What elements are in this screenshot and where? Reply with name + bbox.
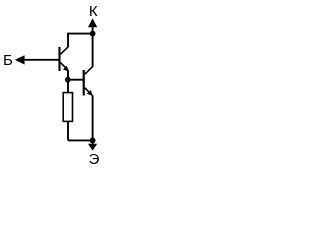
wire bottom horizontal bbox=[68, 139, 93, 141]
wire Q1 collector horizontal bbox=[68, 33, 93, 35]
transistor Q1 emitter arrowhead bbox=[63, 66, 69, 72]
transistor Q2 base bar bbox=[83, 70, 85, 96]
junction emitter node bbox=[90, 138, 96, 144]
transistor Q1 base bar bbox=[58, 47, 60, 71]
transistor Q2 emitter lead bbox=[85, 88, 90, 93]
junction Q2 base node bbox=[65, 77, 71, 83]
base terminal arrow bbox=[15, 55, 25, 64]
transistor Q2 collector lead bbox=[85, 66, 93, 74]
wire Q1 emitter to node bbox=[67, 71, 69, 94]
emitter terminal arrow bbox=[88, 144, 97, 151]
wire emitter vertical bbox=[92, 96, 94, 146]
wire resistor bottom vertical bbox=[67, 121, 69, 140]
wire Q1 collector vertical bbox=[67, 33, 69, 47]
resistor R1 bbox=[63, 93, 72, 122]
wire base horizontal bbox=[24, 59, 59, 61]
transistor Q1 emitter lead bbox=[61, 63, 66, 68]
svg-text:Б: Б bbox=[3, 52, 13, 69]
svg-text:К: К bbox=[89, 3, 98, 20]
svg-text:Э: Э bbox=[89, 151, 100, 166]
collector terminal arrow bbox=[88, 18, 97, 27]
wire Q2 base horizontal bbox=[68, 79, 83, 81]
wire collector vertical bbox=[92, 25, 94, 67]
transistor Q2 emitter arrowhead bbox=[87, 90, 93, 96]
transistor Q1 collector lead bbox=[61, 47, 69, 55]
junction collector node bbox=[90, 31, 96, 37]
